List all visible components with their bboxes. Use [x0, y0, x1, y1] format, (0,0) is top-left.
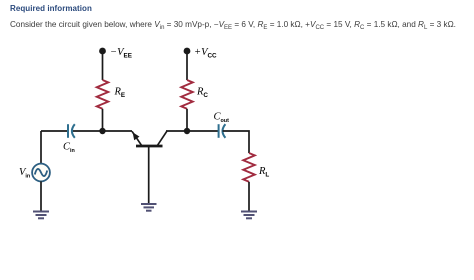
ground (base) — [141, 204, 157, 211]
resistor RE — [97, 80, 109, 109]
capacitor Cout — [219, 124, 226, 138]
wire Cin to emitter — [72, 130, 132, 132]
ground (Vin) — [33, 212, 49, 219]
wire +VCC to RC — [186, 51, 188, 80]
transistor Q1 emitter — [132, 131, 142, 145]
svg-text:RC: RC — [196, 87, 208, 100]
wire RC to node B — [186, 109, 188, 131]
wire RE to node A — [102, 109, 104, 131]
wire collector to Cout — [166, 130, 219, 132]
resistor RL — [243, 153, 255, 182]
supply terminal +VCC — [184, 48, 191, 55]
supply terminal -VEE — [99, 48, 106, 55]
wire -VEE to RE — [102, 51, 104, 80]
transistor Q1 collector — [158, 131, 167, 145]
wire Vin top — [40, 131, 42, 163]
svg-text:Cin: Cin — [63, 142, 75, 154]
svg-text:Vin: Vin — [19, 167, 30, 179]
transistor Q1 base bar — [136, 145, 163, 148]
svg-text:RL: RL — [258, 166, 269, 179]
node B (collector node) — [184, 128, 190, 134]
wire Vin to Cin — [41, 130, 68, 132]
source Vin — [32, 164, 50, 182]
svg-text:+VCC: +VCC — [194, 47, 217, 60]
capacitor Cin — [68, 124, 75, 138]
wire Cout to RL corner — [223, 131, 249, 153]
ground (RL) — [241, 212, 257, 219]
transistor Q1 base lead — [148, 146, 150, 204]
svg-text:−VEE: −VEE — [110, 47, 132, 60]
node A (emitter node) — [99, 128, 105, 134]
wire Vin bottom — [40, 181, 42, 211]
svg-text:RE: RE — [114, 87, 126, 100]
svg-text:Cout: Cout — [214, 112, 230, 124]
wire RL to ground — [248, 182, 250, 211]
transistor Q1 emitter arrow — [133, 132, 140, 140]
resistor RC — [181, 80, 193, 109]
